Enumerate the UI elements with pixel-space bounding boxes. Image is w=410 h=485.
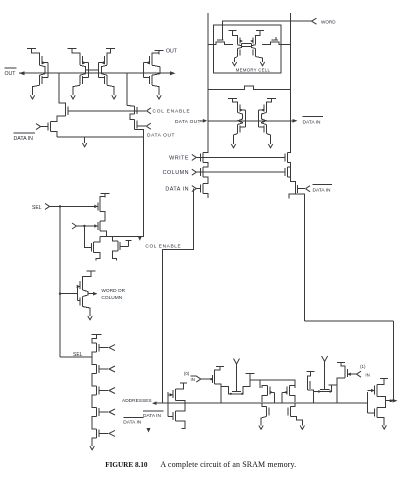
svg-text:DATA IN: DATA IN xyxy=(143,413,161,419)
svg-text:DATA OUT: DATA OUT xyxy=(175,119,201,125)
svg-text:COLUMN: COLUMN xyxy=(163,170,189,176)
svg-text:DATA IN: DATA IN xyxy=(303,119,321,125)
svg-text:ADDRESSES: ADDRESSES xyxy=(122,398,152,404)
svg-text:DATA IN: DATA IN xyxy=(14,136,34,142)
svg-text:COL ENABLE: COL ENABLE xyxy=(153,108,191,114)
svg-text:A complete circuit of an SRAM: A complete circuit of an SRAM memory. xyxy=(160,460,296,469)
svg-text:DATA IN: DATA IN xyxy=(123,419,141,425)
svg-text:FIGURE 8.10: FIGURE 8.10 xyxy=(105,461,148,469)
svg-text:DATA IN: DATA IN xyxy=(165,187,189,193)
svg-text:WORD OR: WORD OR xyxy=(101,288,125,294)
svg-text:WORD: WORD xyxy=(321,19,336,24)
svg-text:IN: IN xyxy=(191,377,195,382)
svg-text:COLUMN: COLUMN xyxy=(101,295,122,301)
svg-text:IN: IN xyxy=(365,373,369,378)
svg-text:OUT: OUT xyxy=(166,49,178,55)
svg-text:SEL: SEL xyxy=(32,205,42,211)
svg-text:(1): (1) xyxy=(360,364,366,369)
svg-text:COL ENABLE: COL ENABLE xyxy=(145,243,181,249)
svg-text:WRITE: WRITE xyxy=(169,155,189,161)
svg-text:OUT: OUT xyxy=(5,71,17,77)
svg-text:DATA OUT: DATA OUT xyxy=(147,133,175,139)
svg-text:DATA IN: DATA IN xyxy=(313,187,331,193)
svg-text:MEMORY CELL: MEMORY CELL xyxy=(236,68,271,73)
svg-text:(0): (0) xyxy=(184,371,190,376)
